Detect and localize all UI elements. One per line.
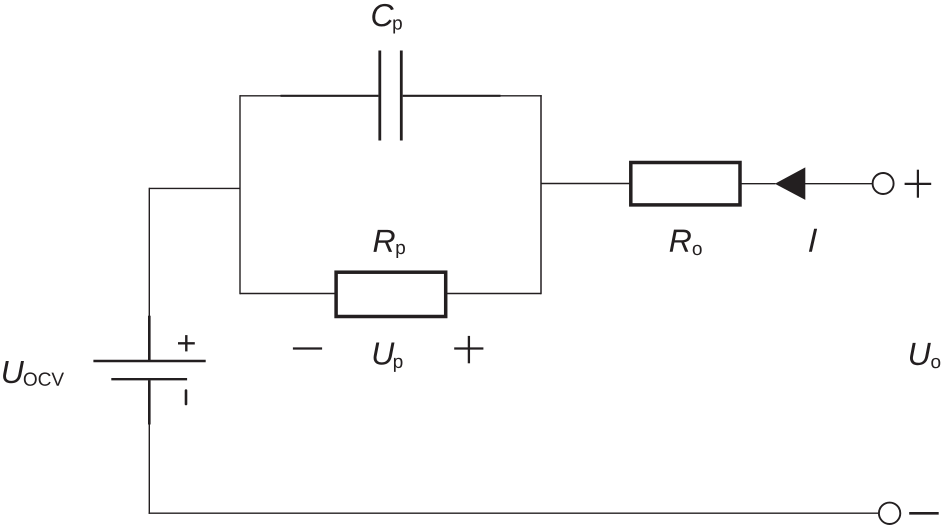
label R_p bbox=[373, 230, 404, 258]
terminal: top output node bbox=[873, 173, 894, 194]
wire: R_o to current arrow tip bbox=[741, 183, 776, 185]
wire: output from parallel loop to R_o bbox=[541, 183, 631, 185]
wire: battery negative lead down to bottom rail bbox=[148, 424, 150, 514]
battery U_OCV bbox=[93, 316, 205, 425]
resistor R_o bbox=[631, 163, 740, 205]
label I bbox=[809, 229, 817, 252]
wire: vertical from stub down to battery positive lead bbox=[148, 188, 150, 317]
label R_o bbox=[670, 230, 702, 256]
wire: right edge of parallel RC loop bbox=[540, 95, 542, 294]
wire: top side of parallel RC loop, right thin segment bbox=[500, 95, 542, 97]
wire: stub from battery branch to left edge of parallel loop bbox=[149, 187, 240, 189]
label top terminal plus bbox=[905, 170, 932, 198]
label U_p polarity minus bbox=[293, 347, 322, 349]
resistor R_p bbox=[336, 272, 446, 316]
wire: bottom side of parallel loop, left of R_p bbox=[240, 293, 336, 295]
label U_OCV bbox=[3, 361, 64, 386]
battery polarity minus tick bbox=[185, 391, 188, 405]
battery polarity plus marker bbox=[178, 335, 195, 351]
wire: bottom rail to output terminal bbox=[149, 512, 879, 514]
wire: left edge of parallel RC loop bbox=[239, 95, 241, 294]
label U_o bbox=[910, 343, 940, 368]
capacitor C_p bbox=[281, 51, 501, 141]
terminal: bottom output node bbox=[879, 503, 900, 524]
label U_p bbox=[374, 342, 403, 371]
wire: bottom side of parallel loop, right of R_p bbox=[446, 293, 541, 295]
label bottom terminal minus bbox=[909, 512, 939, 515]
wire: top side of parallel RC loop, left thin segment bbox=[240, 95, 282, 97]
label C_p bbox=[372, 4, 402, 34]
current arrow I, pointing left bbox=[775, 167, 805, 200]
label U_p polarity plus bbox=[454, 336, 483, 363]
wire: arrow to top terminal bbox=[805, 183, 872, 185]
